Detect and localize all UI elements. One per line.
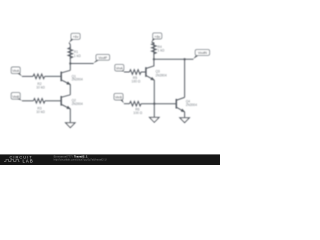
svg-text:VoutP: VoutP xyxy=(98,56,108,60)
ground (left, under Q2) xyxy=(66,123,76,128)
wire R1 bottom to node xyxy=(69,58,71,63)
svg-text:VoutN: VoutN xyxy=(198,51,208,55)
resistor R3 xyxy=(33,99,45,115)
svg-text:1 kΩ: 1 kΩ xyxy=(74,54,81,58)
output flag VoutP xyxy=(93,54,109,63)
node junction (Q3 emitter / Q4 base line) xyxy=(153,103,155,105)
svg-text:http://circuitlab.com/c/acs7qc: http://circuitlab.com/c/acs7qcy5p7a6/tra… xyxy=(54,158,107,162)
wire VinB to R6 xyxy=(124,103,130,105)
svg-text:100 Ω: 100 Ω xyxy=(132,79,141,83)
power flag +6v (right) xyxy=(152,33,162,42)
svg-text:VinB: VinB xyxy=(115,96,123,100)
wire Q4 emitter to ground xyxy=(184,112,186,118)
svg-text:10 kΩ: 10 kΩ xyxy=(36,110,45,114)
wire Q3 emitter down to ground (through junction) xyxy=(153,80,155,117)
svg-text:1 kΩ: 1 kΩ xyxy=(158,49,165,53)
resistor R2 xyxy=(33,74,45,90)
wire Q2 emitter to ground xyxy=(69,109,71,123)
node junction (left output node) xyxy=(69,62,71,64)
ground (right, under Q4) xyxy=(180,118,190,123)
resistor R6 xyxy=(130,101,143,114)
wire right node across to VoutN flag xyxy=(154,58,194,60)
CircuitLab logo waveform squiggle xyxy=(4,160,20,162)
wire R2 to Q1 base xyxy=(45,75,61,77)
ground (middle, under Q3) xyxy=(150,117,160,122)
node junction (right output node at R4) xyxy=(153,58,155,60)
wire node to VoutP flag xyxy=(70,63,93,65)
svg-text:VinA: VinA xyxy=(12,69,20,73)
svg-text:VinA: VinA xyxy=(116,67,124,71)
svg-text:LAB: LAB xyxy=(23,159,34,164)
transistor Q3 xyxy=(146,66,167,80)
wire R6 to Q4 base (crosses Q3 emitter line) xyxy=(141,103,176,105)
transistor Q2 xyxy=(61,95,83,109)
output flag VoutN xyxy=(193,50,209,59)
resistor R4 xyxy=(152,43,165,54)
wire from +6v flag to R4 xyxy=(152,42,154,43)
resistor R5 xyxy=(129,70,141,84)
input flag VinB (right) xyxy=(114,93,124,103)
wire Q1 emitter to Q2 collector xyxy=(69,85,71,95)
svg-text:VinB: VinB xyxy=(12,95,20,99)
svg-text:2N3904: 2N3904 xyxy=(186,103,197,107)
wire R3 to Q2 base xyxy=(45,100,61,102)
wire node to Q3 collector xyxy=(153,59,155,66)
svg-text:2N3904: 2N3904 xyxy=(72,78,83,82)
input flag VinB (left) xyxy=(11,93,22,101)
node junction (Q4 collector tap) xyxy=(184,58,186,60)
input flag VinA (left) xyxy=(11,67,22,76)
svg-text:+6v: +6v xyxy=(73,35,79,39)
wire VinA to R5 xyxy=(124,71,129,73)
wire R4 bottom to node xyxy=(153,54,155,59)
svg-text:10 kΩ: 10 kΩ xyxy=(36,86,45,90)
svg-text:2N3904: 2N3904 xyxy=(72,102,83,106)
wire VinA to R2 xyxy=(22,75,33,77)
wire VinB to R3 xyxy=(22,100,34,102)
wire R5 to Q3 base xyxy=(141,71,145,73)
wire node to Q1 collector xyxy=(69,64,71,71)
svg-text:+6v: +6v xyxy=(154,35,160,39)
power flag +6v (left) xyxy=(69,33,80,42)
CircuitLab banner xyxy=(0,154,220,165)
svg-text:2N3904: 2N3904 xyxy=(156,74,167,78)
transistor Q4 xyxy=(176,97,197,111)
wire Q4 collector tap down to Q4 xyxy=(184,59,186,97)
transistor Q1 xyxy=(61,70,83,84)
resistor R1 xyxy=(68,48,81,59)
svg-text:100 Ω: 100 Ω xyxy=(133,111,142,115)
input flag VinA (right) xyxy=(115,64,124,71)
wire from +6v flag to R1 xyxy=(69,43,70,48)
